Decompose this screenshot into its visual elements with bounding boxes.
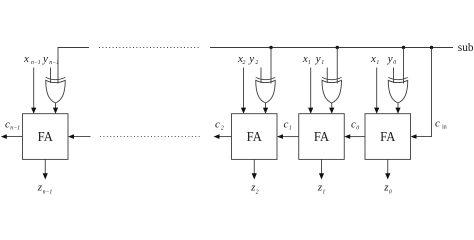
svg-text:in: in: [442, 125, 447, 131]
wire y(n-1) input: [50, 68, 52, 84]
wire xor G1 output: [331, 103, 333, 108]
wire sub net: main horizontal line: [210, 47, 453, 49]
svg-text:0: 0: [356, 126, 359, 132]
arrowhead carry-out c(n-1): [1, 134, 7, 139]
svg-text:n−1: n−1: [49, 60, 59, 66]
svg-text:y: y: [315, 53, 321, 65]
wire carry-in c_in elbow from sub line: [417, 48, 432, 137]
svg-text:sub: sub: [458, 42, 474, 54]
wire carry c0 from U0 to U1: [350, 136, 365, 138]
arrowhead z2 output: [252, 173, 257, 179]
svg-text:x: x: [23, 53, 29, 65]
node junction above XOR1: [336, 46, 339, 49]
arrowhead x1 into U1: [308, 108, 313, 114]
node junction above XOR2: [269, 46, 272, 49]
svg-text:FA: FA: [247, 129, 262, 144]
svg-text:0: 0: [389, 189, 392, 194]
wire carry c1 from U1 to U2: [283, 136, 299, 138]
svg-text:FA: FA: [314, 129, 329, 144]
svg-text:c: c: [284, 119, 289, 131]
xor gate G2 body: [256, 80, 276, 103]
svg-text:n−1: n−1: [31, 60, 41, 66]
svg-text:2: 2: [256, 189, 259, 194]
wire sub net: dotted continuation (top): [99, 47, 199, 49]
svg-text:1: 1: [308, 60, 311, 66]
wire carry-out c(n-1): [6, 136, 22, 138]
svg-text:y: y: [42, 53, 48, 65]
svg-text:n−1: n−1: [10, 126, 20, 132]
svg-text:2: 2: [255, 60, 258, 66]
arrowhead carry c0 into U1 right side: [344, 134, 350, 139]
arrowhead x2 into U2: [241, 108, 246, 114]
node junction above XOR0: [402, 46, 405, 49]
full adder U1 (bit 1) box: [299, 114, 345, 160]
arrowhead z1 output: [319, 173, 324, 179]
svg-text:n−1: n−1: [43, 189, 53, 194]
svg-text:c: c: [435, 118, 440, 130]
svg-text:c: c: [351, 119, 356, 131]
wire sub drop to XOR1: [336, 48, 338, 84]
wire z(n-1) output: [44, 159, 46, 173]
svg-text:c: c: [215, 119, 220, 131]
wire xor G0 output: [397, 103, 399, 108]
svg-text:FA: FA: [380, 129, 395, 144]
wire sub drop to XOR0: [403, 48, 405, 84]
xor gate G3 extra input arc: [46, 77, 66, 79]
arrowhead x0 into U0: [374, 108, 379, 114]
arrowhead xor G2 output into U2: [263, 108, 268, 114]
svg-text:1: 1: [322, 189, 325, 194]
wire sub net: left elbow vertical into XOR(n-1): [58, 48, 89, 84]
xor gate G0 extra input arc: [388, 77, 408, 79]
wire x2 input: [243, 68, 245, 109]
svg-text:y: y: [248, 53, 254, 65]
wire xor G3 output: [55, 103, 57, 108]
full adder U0 (bit 0) box: [365, 114, 411, 160]
svg-text:1: 1: [289, 126, 292, 132]
wire sub drop to XOR2: [270, 48, 272, 84]
xor gate G1 extra input arc: [322, 77, 342, 79]
full adder U2 (bit 2) box: [232, 114, 278, 160]
wire carry-out c2: [220, 136, 232, 138]
arrowhead xor G1 output into U1: [329, 108, 334, 114]
arrowhead carry-in c_in into U0 right side: [411, 134, 417, 139]
xor gate G2 extra input arc: [256, 77, 276, 79]
wire dotted carry chain (middle): [100, 136, 200, 138]
arrowhead xor G0 output into U0: [395, 108, 400, 114]
svg-text:0: 0: [393, 60, 396, 66]
svg-text:x: x: [370, 53, 376, 65]
arrowhead z(n-1) output: [43, 173, 48, 179]
node junction for carry-in branch: [430, 46, 433, 49]
wire z0 output: [387, 159, 389, 173]
svg-text:1: 1: [321, 60, 324, 66]
wire y0 input: [393, 68, 395, 84]
wire y1 input: [326, 68, 328, 84]
xor gate G0 body: [388, 80, 408, 103]
wire x(n-1) input: [33, 68, 35, 109]
svg-text:2: 2: [221, 126, 224, 132]
arrowhead carry-in into U3 right side: [68, 134, 74, 139]
svg-text:1: 1: [376, 60, 379, 66]
wire z1 output: [321, 159, 323, 173]
wire xor G2 output: [265, 103, 267, 108]
xor gate G1 body: [322, 80, 342, 103]
full adder U3 (bit n-1) box: [23, 114, 69, 160]
svg-text:FA: FA: [38, 129, 53, 144]
svg-text:y: y: [387, 53, 393, 65]
wire x1 input: [310, 68, 312, 109]
svg-text:c: c: [5, 119, 10, 131]
wire y2 input: [260, 68, 262, 84]
arrowhead z0 output: [385, 173, 390, 179]
wire x0 input: [376, 68, 378, 109]
arrowhead xor G3 output into U3: [53, 108, 58, 114]
wire carry-in to U3 from dotted chain: [74, 136, 91, 138]
arrowhead carry c1 into U2 right side: [277, 134, 283, 139]
xor gate G3 (bit n-1) body: [46, 80, 66, 103]
wire z2 output: [253, 159, 255, 173]
svg-text:2: 2: [243, 60, 246, 66]
arrowhead x(n-1) into U3: [31, 108, 36, 114]
arrowhead carry-out c2 into dotted chain: [214, 134, 220, 139]
